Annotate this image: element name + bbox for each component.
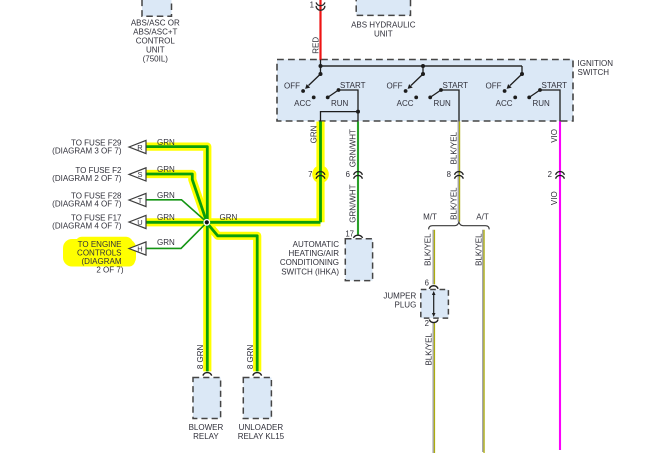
ignition switch box (277, 60, 573, 122)
svg-text:JUMPER: JUMPER (383, 291, 416, 300)
wire pivot drop sw2 (422, 66, 424, 74)
svg-text:BLK/YEL: BLK/YEL (450, 131, 459, 164)
label TO FUSE F29 (DIAGRAM 3 OF 7) (52, 138, 122, 155)
wire stub from box edge to bus sw1 (320, 60, 322, 67)
highlight on wire GRN from ignition switch (316, 122, 324, 223)
highlight on wire GRN branch to unloader relay (207, 223, 257, 371)
svg-text:AUTOMATIC: AUTOMATIC (293, 240, 340, 249)
svg-text:1: 1 (310, 0, 314, 9)
svg-text:(DIAGRAM 4 OF 7): (DIAGRAM 4 OF 7) (52, 199, 122, 208)
svg-text:A/T: A/T (476, 213, 489, 222)
svg-text:RED: RED (312, 37, 321, 54)
connector 8 on BLK/YEL wire (455, 172, 464, 179)
node: GRN splice junction (203, 219, 210, 226)
node: pivot dot sw2 (421, 72, 425, 76)
entry arc into unloader relay (253, 373, 262, 376)
yellow highlighter underlays for GRN wires (146, 122, 321, 372)
svg-text:ACC: ACC (294, 99, 311, 108)
label BLOWER RELAY (189, 423, 224, 441)
entry arc into blower relay (203, 373, 212, 376)
wire RUN to START contact sw2 (430, 90, 441, 97)
svg-text:RUN: RUN (533, 99, 551, 108)
label TO ENGINE CONTROLS (DIAGRAM 2 OF 7) (77, 240, 124, 275)
switch wiper arrow sw1 (309, 74, 321, 86)
svg-text:TO ENGINE: TO ENGINE (78, 240, 122, 249)
IHKA switch box (345, 239, 372, 281)
svg-text:UNLOADER: UNLOADER (239, 423, 284, 432)
svg-text:BLOWER: BLOWER (189, 423, 224, 432)
fanout row S: triangle connector S (129, 168, 146, 181)
switch wiper arrow sw2 (411, 74, 423, 86)
svg-text:START: START (443, 81, 469, 90)
svg-text:VIO: VIO (550, 129, 559, 143)
label ABS HYDRAULIC UNIT (351, 20, 416, 38)
ABS hydraulic unit box (top middle, clipped) (356, 0, 410, 15)
pin 17 entry arc into IHKA (353, 235, 362, 238)
svg-text:6: 6 (346, 170, 350, 179)
svg-text:(DIAGRAM 2 OF 7): (DIAGRAM 2 OF 7) (52, 174, 122, 183)
wire GRN R branch: triangle R to junction, down to blower relay (146, 147, 207, 372)
svg-text:S: S (137, 170, 142, 179)
contact OFF dot sw1 (301, 89, 305, 93)
svg-text:START: START (340, 81, 366, 90)
svg-text:ABS/ASC OR: ABS/ASC OR (131, 19, 180, 28)
node: output junction dot sw1 (356, 110, 360, 114)
label UNLOADER RELAY KL15 (238, 423, 285, 441)
svg-text:VIO: VIO (550, 191, 559, 205)
wire BLK/YEL M/T branch (yellow stripe) (433, 230, 435, 285)
wire GRN H branch (thin): triangle H to junction (145, 223, 207, 249)
jumper link double arrow (432, 291, 436, 317)
node: pivot dot sw1 (319, 72, 323, 76)
highlight on wire GRN R branch + blower relay drop (146, 147, 207, 372)
connector 7 on GRN wire (316, 172, 325, 179)
wire RUN to START contact sw3 (529, 90, 540, 97)
wire GRN/WHT from ignition switch to IHKA switch (357, 122, 359, 235)
unloader relay box (243, 378, 271, 419)
svg-text:8 GRN: 8 GRN (196, 344, 205, 369)
svg-text:GRN: GRN (157, 191, 175, 200)
svg-text:UNIT: UNIT (374, 29, 393, 38)
fanout row T: triangle connector T (129, 193, 146, 206)
svg-text:GRN: GRN (157, 213, 175, 222)
svg-text:ACC: ACC (496, 99, 513, 108)
wire BLK/YEL main (black stripe) (457, 122, 459, 222)
wire pivot drop sw1 (320, 66, 322, 74)
svg-text:RUN: RUN (331, 99, 349, 108)
label ABS/ASC OR ABS/ASC+T CONTROL UNIT (750IL) (131, 19, 180, 64)
wire BLK/YEL below jumper plug (black stripe) (432, 323, 434, 453)
node: START contact dot sw3 (538, 88, 542, 92)
svg-text:GRN: GRN (220, 213, 238, 222)
svg-text:GRN/WHT: GRN/WHT (349, 184, 358, 222)
wire START contact to output sw3 (540, 90, 560, 122)
node: pivot dot sw3 (520, 72, 524, 76)
contact ACC dot sw3 (513, 96, 517, 100)
label TO FUSE F2 (DIAGRAM 2 OF 7) (52, 166, 122, 183)
svg-text:BLK/YEL: BLK/YEL (474, 233, 483, 266)
wire GRN vertical from ignition switch (319, 122, 322, 223)
contact RUN dot sw3 (527, 96, 531, 100)
switch section 2 (OFF/ACC/RUN/START) (404, 64, 459, 122)
svg-text:BLK/YEL: BLK/YEL (450, 187, 459, 220)
brace symbol splitting BLK/YEL into M/T and A/T branches (429, 222, 490, 229)
ignition switch internal bus wire (321, 65, 523, 67)
svg-text:17: 17 (345, 230, 354, 239)
svg-text:2 OF 7): 2 OF 7) (96, 265, 123, 274)
switch wiper arrow sw3 (510, 74, 522, 86)
svg-text:BLK/YEL: BLK/YEL (424, 233, 433, 266)
contact RUN dot sw1 (326, 96, 330, 100)
label AUTOMATIC HEATING/AIR CONDITIONING SWITCH (IHKA) (280, 240, 339, 277)
svg-text:START: START (542, 81, 568, 90)
wire BLK/YEL main (yellow stripe) (459, 122, 461, 222)
svg-text:2: 2 (548, 170, 552, 179)
label IGNITION SWITCH (578, 59, 614, 77)
node: bus junction dot sw1 (319, 64, 323, 68)
svg-text:SWITCH (IHKA): SWITCH (IHKA) (281, 267, 339, 276)
wire START contact to output sw2 (441, 90, 459, 122)
svg-text:OFF: OFF (486, 82, 502, 91)
wire BLK/YEL A/T branch (black stripe) (482, 230, 484, 452)
highlight bulge over connector 7 (312, 165, 329, 183)
labels switch section 3 (486, 81, 568, 108)
svg-text:GRN: GRN (310, 125, 319, 143)
svg-text:(DIAGRAM 4 OF 7): (DIAGRAM 4 OF 7) (52, 221, 122, 230)
connector 2 on VIO wire (556, 172, 565, 179)
wire RUN to START contact sw1 (328, 90, 339, 97)
wire BLK/YEL from ignition switch (dual color) (433, 122, 484, 454)
yellow highlighter blob over TO ENGINE CONTROLS label (63, 237, 136, 267)
svg-text:BLK/YEL: BLK/YEL (424, 333, 433, 366)
wire BLK/YEL below jumper plug (yellow stripe) (433, 323, 435, 453)
svg-text:CONDITIONING: CONDITIONING (280, 258, 339, 267)
wire output junction down to GRN/WHT drop sw1 (357, 112, 359, 122)
switch section 3 (OFF/ACC/RUN/START) (503, 66, 560, 122)
svg-text:GRN: GRN (157, 238, 175, 247)
highlight on wire GRN S branch (146, 174, 207, 222)
svg-text:UNIT: UNIT (146, 46, 165, 55)
svg-text:ABS HYDRAULIC: ABS HYDRAULIC (351, 20, 416, 29)
contact OFF dot sw3 (503, 89, 507, 93)
labels switch section 1 (284, 81, 366, 108)
labels switch section 2 (387, 81, 469, 108)
label TO FUSE F28 (DIAGRAM 4 OF 7) (52, 191, 122, 208)
svg-text:CONTROL: CONTROL (136, 37, 176, 46)
svg-text:HEATING/AIR: HEATING/AIR (288, 249, 339, 258)
svg-text:H: H (137, 244, 142, 253)
connector 1 on RED wire (316, 2, 325, 10)
node: START contact dot sw2 (439, 88, 443, 92)
svg-text:8: 8 (447, 170, 451, 179)
svg-text:2: 2 (425, 319, 429, 328)
svg-text:PLUG: PLUG (395, 301, 417, 310)
switch section 1 (OFF/ACC/RUN/START) (301, 64, 360, 122)
wire VIO from ignition switch (559, 122, 561, 451)
svg-text:OFF: OFF (387, 82, 403, 91)
svg-text:RELAY KL15: RELAY KL15 (238, 432, 285, 441)
wire BLK/YEL M/T branch (black stripe) (432, 230, 434, 285)
svg-text:6: 6 (425, 279, 429, 288)
fanout row H: triangle connector H (129, 242, 146, 255)
svg-text:GRN: GRN (157, 138, 175, 147)
svg-text:GRN/WHT: GRN/WHT (349, 129, 358, 167)
wire output junction to GRN drop sw1 (321, 112, 359, 122)
svg-text:(DIAGRAM 3 OF 7): (DIAGRAM 3 OF 7) (52, 146, 122, 155)
svg-text:(750IL): (750IL) (143, 55, 169, 64)
svg-text:RELAY: RELAY (193, 432, 219, 441)
svg-text:M/T: M/T (423, 213, 437, 222)
svg-text:SWITCH: SWITCH (578, 68, 610, 77)
svg-text:U: U (137, 218, 142, 227)
highlight on wire GRN U branch + junction to ignition corner (146, 218, 321, 226)
wire RED from ABS hydraulic unit to ignition switch (319, 0, 321, 60)
fanout row U: triangle connector U (129, 215, 146, 228)
blower relay box (193, 378, 221, 419)
label JUMPER PLUG (383, 291, 416, 309)
svg-text:OFF: OFF (284, 82, 300, 91)
contact ACC dot sw2 (414, 96, 418, 100)
wire START contact to output sw1 (339, 90, 359, 112)
node: START contact dot sw1 (337, 88, 341, 92)
svg-text:7: 7 (308, 170, 312, 179)
svg-text:IGNITION: IGNITION (578, 59, 614, 68)
wire pivot drop sw3 (521, 66, 523, 74)
contact OFF dot sw2 (404, 89, 408, 93)
svg-text:ABS/ASC+T: ABS/ASC+T (133, 28, 177, 37)
svg-text:GRN: GRN (157, 165, 175, 174)
fanout row R: triangle connector R (129, 140, 146, 153)
contact RUN dot sw2 (428, 96, 432, 100)
svg-text:ACC: ACC (397, 99, 414, 108)
connector 6 on GRN/WHT wire (354, 172, 363, 179)
jumper plug box (421, 290, 449, 319)
pin 6 entry arc into jumper plug (429, 286, 438, 289)
svg-text:8 GRN: 8 GRN (246, 344, 255, 369)
wire GRN T branch (thin): triangle T to junction (145, 200, 207, 222)
contact ACC dot sw1 (312, 96, 316, 100)
svg-text:T: T (138, 196, 143, 205)
wire GRN S branch: triangle S to junction (146, 174, 207, 222)
svg-text:R: R (137, 143, 143, 152)
pin 2 exit arc from jumper plug (429, 320, 438, 323)
wire BLK/YEL A/T branch (yellow stripe) (483, 230, 485, 453)
wire GRN branch junction to unloader relay (207, 223, 257, 371)
svg-text:RUN: RUN (434, 99, 452, 108)
node: bus junction dot sw2 (421, 64, 425, 68)
ABS/ASC control unit box (top left, clipped) (142, 0, 172, 16)
label TO FUSE F17 (DIAGRAM 4 OF 7) (52, 213, 122, 230)
wire GRN U branch: triangle U through junction to ignition corner (146, 221, 321, 224)
